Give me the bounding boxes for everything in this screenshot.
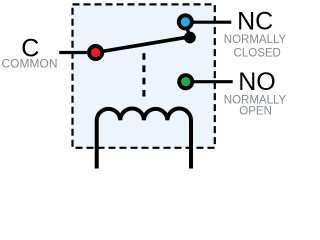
terminal NC (blue) <box>179 15 192 28</box>
svg-text:CLOSED: CLOSED <box>234 47 281 59</box>
svg-text:NC: NC <box>237 8 273 36</box>
wire switch arm <box>96 37 191 53</box>
svg-text:COMMON: COMMON <box>2 56 58 70</box>
wire actuation dashed link <box>142 53 145 96</box>
svg-text:OPEN: OPEN <box>239 106 272 118</box>
terminal NO (green) <box>179 75 192 88</box>
wire pivot to NC stub <box>185 22 190 38</box>
relay body dashed box <box>73 4 215 147</box>
coil L1 <box>97 109 191 169</box>
terminal common (red) <box>89 46 102 59</box>
wire NC lead <box>185 21 231 24</box>
node pivot <box>184 32 196 44</box>
svg-text:NORMALLY: NORMALLY <box>224 34 287 46</box>
wire common lead <box>59 51 97 54</box>
svg-text:NO: NO <box>238 68 276 96</box>
svg-text:NORMALLY: NORMALLY <box>224 94 287 106</box>
wire NO lead <box>186 80 233 83</box>
